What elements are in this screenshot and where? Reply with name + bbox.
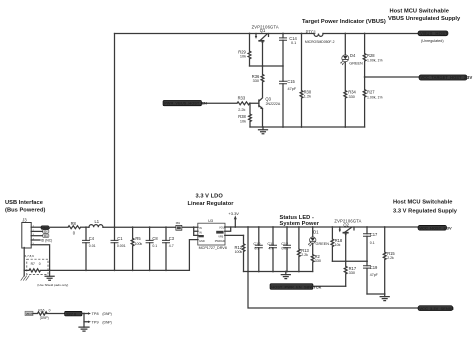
transistor Q1 ZVP2106GTA <box>252 24 279 44</box>
ground (status block) <box>281 271 290 279</box>
svg-text:0.01: 0.01 <box>89 244 96 248</box>
svg-text:R34: R34 <box>348 90 356 95</box>
svg-text:VCC_TARGET_HOST_3.3V: VCC_TARGET_HOST_3.3V <box>420 75 472 80</box>
resistor R7 0 (shield, DNP dashed box) <box>27 259 48 274</box>
svg-text:(DNP): (DNP) <box>102 320 111 324</box>
svg-text:100k: 100k <box>235 250 243 254</box>
svg-text:10k: 10k <box>335 243 341 247</box>
connector J3 USB <box>22 218 35 249</box>
svg-text:0.1: 0.1 <box>152 244 157 248</box>
svg-text:+3.3V: +3.3V <box>228 211 239 216</box>
svg-text:ID (NC): ID (NC) <box>41 239 53 243</box>
svg-text:2.2k: 2.2k <box>301 253 308 257</box>
svg-text:2N2222A: 2N2222A <box>266 102 281 106</box>
svg-text:VBUS_HOST: VBUS_HOST <box>420 31 448 36</box>
svg-text:VFB: VFB <box>218 234 223 238</box>
resistor R33 2.2k <box>237 95 250 112</box>
svg-text:0.1: 0.1 <box>370 241 375 245</box>
net label: D+ (gray) <box>43 234 49 238</box>
resistor R13 2.2k <box>298 227 310 272</box>
wire: U3 input pin ties <box>193 226 198 235</box>
title: Target Power Indicator (VBUS) <box>302 19 386 25</box>
svg-text:R33: R33 <box>238 95 246 100</box>
capacitor C8 0.1 <box>146 227 158 270</box>
capacitor C17 0.1 <box>364 226 379 261</box>
resistor R27 1.00k 1% <box>363 77 382 127</box>
svg-text:D1: D1 <box>313 230 319 235</box>
wire: R8 to L1 <box>81 226 89 228</box>
wire: VBUS top rail <box>115 33 420 35</box>
LED D4 GREEN <box>340 34 363 91</box>
capacitor C12 0.01 <box>281 227 290 272</box>
net label: VBUS (inverse) <box>41 226 50 230</box>
svg-text:R28: R28 <box>367 53 375 58</box>
svg-text:2.2k: 2.2k <box>238 108 245 112</box>
svg-text:(Use Shield pads only): (Use Shield pads only) <box>37 283 68 287</box>
svg-text:2.2k: 2.2k <box>387 256 394 260</box>
svg-text:0.1: 0.1 <box>254 246 259 250</box>
ground (test point row) <box>79 322 89 331</box>
resistor R28 1.00k 1% <box>363 34 382 78</box>
wire: gate node horizontal <box>250 65 284 67</box>
wire: R16 to TP7 <box>47 313 65 315</box>
wire: Q1 gate stem <box>262 41 264 66</box>
svg-text:3.3 V Regulated Supply: 3.3 V Regulated Supply <box>393 209 458 215</box>
svg-text:Linear Regulator: Linear Regulator <box>188 201 235 207</box>
svg-text:GND: GND <box>199 239 205 243</box>
wire: U3 GND pin to ground rail <box>189 240 198 271</box>
svg-text:C19: C19 <box>370 265 378 270</box>
title: USB Interface (Bus Powered) <box>5 200 46 214</box>
port: VCC_HOST_3V3 <box>418 225 452 230</box>
svg-text:HOST_PWR_EN_SBWTCK: HOST_PWR_EN_SBWTCK <box>271 284 321 289</box>
svg-text:VCC_HOST_3.3V: VCC_HOST_3.3V <box>419 225 452 230</box>
power symbol +3.3V <box>228 211 239 227</box>
title: Status LED - System Power <box>280 215 320 227</box>
svg-text:C4: C4 <box>89 236 95 241</box>
port: VCC_TARGET_HOST sense <box>419 75 472 80</box>
ground (J3 GND pin) <box>45 270 54 280</box>
svg-text:Q3: Q3 <box>265 96 271 101</box>
note: use shield pads only <box>37 283 68 287</box>
capacitor C14 0.1 <box>280 34 298 67</box>
PTC fuse PTC1 MICROSMD050F-2 <box>305 29 335 44</box>
wire: 3.3V sense long vertical and bottom run <box>247 226 418 308</box>
svg-text:R16: R16 <box>38 309 44 313</box>
port: VBUS_HOST (unregulated) <box>418 31 448 43</box>
net label: VBUS test point row (gray) <box>25 311 33 316</box>
svg-text:VBUS: VBUS <box>26 312 33 316</box>
wire: Q2 gate node <box>332 260 368 262</box>
svg-text:6,7,8,9: 6,7,8,9 <box>25 254 35 258</box>
wire: divider tap to sense label <box>364 76 421 78</box>
svg-text:VBUS Unregulated Supply: VBUS Unregulated Supply <box>388 16 461 22</box>
test point TP9 (DNP) <box>88 320 112 324</box>
port: VCC_3V3_SENSE <box>418 306 454 311</box>
svg-text:MICROSMD050F-2: MICROSMD050F-2 <box>305 40 335 44</box>
svg-text:USB Interface: USB Interface <box>5 200 43 206</box>
resistor R16 0 (DNP) <box>38 309 51 321</box>
svg-text:Target Power Indicator (VBUS): Target Power Indicator (VBUS) <box>302 19 386 25</box>
svg-text:C8: C8 <box>152 236 158 241</box>
svg-text:1.00k, 1%: 1.00k, 1% <box>367 59 383 63</box>
resistor R15 2.2k <box>383 226 395 294</box>
capacitor C1 0.001 <box>111 227 126 270</box>
transistor Q3 <box>259 96 281 109</box>
wire: USB VBUS rail to U3 <box>103 226 198 228</box>
wire: J3 pin1 VBUS stub <box>31 226 41 228</box>
svg-text:PWR_VBUS_HOST_EN: PWR_VBUS_HOST_EN <box>164 101 207 106</box>
svg-text:IN: IN <box>199 230 202 234</box>
svg-text:C15: C15 <box>287 79 295 84</box>
capacitor C3 4.7 <box>163 227 175 270</box>
svg-text:FB1: FB1 <box>176 222 181 225</box>
wire: R12 bottom to ground rail <box>244 271 249 273</box>
svg-text:System Power: System Power <box>280 221 320 227</box>
svg-text:10k: 10k <box>240 55 246 59</box>
ground (host 3.3V block) <box>380 293 389 301</box>
resistor R12 100k <box>234 235 244 271</box>
capacitor C10 0.1 <box>253 227 262 272</box>
resistor R17 330 <box>344 261 357 286</box>
wire: USB ground rail <box>24 269 189 271</box>
svg-text:0.001: 0.001 <box>117 244 126 248</box>
svg-text:R8: R8 <box>71 221 77 226</box>
svg-text:47pF: 47pF <box>370 273 378 277</box>
svg-text:(DNP): (DNP) <box>102 312 111 316</box>
svg-text:4.7: 4.7 <box>268 246 273 250</box>
svg-text:(Unregulated): (Unregulated) <box>421 39 444 43</box>
wire: J3 pin5 GND stub down <box>31 245 50 271</box>
LED D1 GREEN <box>308 227 329 255</box>
svg-text:330: 330 <box>315 259 321 263</box>
ground (top block) <box>259 127 268 134</box>
wire: top block ground rail <box>250 126 365 128</box>
wire: Q2 gate stem <box>345 233 347 262</box>
capacitor C15 47pF <box>280 66 297 127</box>
svg-text:PTC1: PTC1 <box>306 29 317 34</box>
resistor R29 10k <box>238 34 251 67</box>
wire: VBUS to R8 <box>49 226 68 228</box>
wire: J3 pin3 D+ stub <box>31 235 42 237</box>
wire: Q3 emitter to ground rail <box>262 109 264 127</box>
svg-text:Q2: Q2 <box>343 223 349 228</box>
svg-text:330: 330 <box>349 95 355 99</box>
test point TP7 (inverse box) <box>65 311 82 316</box>
svg-text:330: 330 <box>349 271 355 275</box>
svg-text:TP8: TP8 <box>92 312 99 316</box>
svg-text:1.00k, 1%: 1.00k, 1% <box>367 95 383 99</box>
net label: D- (gray) <box>43 230 49 234</box>
svg-text:C1: C1 <box>117 236 123 241</box>
svg-text:47pF: 47pF <box>288 87 297 91</box>
svg-text:1.2k: 1.2k <box>304 95 311 99</box>
svg-text:C11: C11 <box>267 242 274 246</box>
svg-text:(DNP): (DNP) <box>40 316 49 320</box>
title: 3.3 V LDO Linear Regulator <box>188 194 235 208</box>
wire: Q3 base wire <box>202 102 259 104</box>
chassis ground (shield) <box>21 270 29 280</box>
inductor L1 <box>89 219 103 227</box>
svg-text:VCC_3.3V_SENSE: VCC_3.3V_SENSE <box>419 306 454 311</box>
svg-text:3.3 V LDO: 3.3 V LDO <box>196 194 224 200</box>
svg-text:U3: U3 <box>208 219 213 223</box>
svg-text:PWRGD: PWRGD <box>215 239 225 243</box>
wire: VBUS rail left vertical drop to USB rail <box>114 34 116 228</box>
svg-text:C12: C12 <box>281 242 288 246</box>
svg-text:Host MCU Switchable: Host MCU Switchable <box>393 200 452 206</box>
resistor R30 1.2k <box>300 34 312 128</box>
svg-text:L1: L1 <box>95 219 100 224</box>
svg-text:(Bus Powered): (Bus Powered) <box>5 208 46 214</box>
wire: label to R16 <box>33 313 38 315</box>
svg-text:C10: C10 <box>253 242 260 246</box>
wire: status block ground rail <box>248 271 313 273</box>
svg-text:0: 0 <box>49 309 51 313</box>
svg-text:TP7 0: TP7 0 <box>66 312 76 316</box>
node dots: 3.3V rail <box>234 226 313 272</box>
svg-text:D4: D4 <box>350 53 356 58</box>
svg-text:GREEN: GREEN <box>349 61 363 65</box>
svg-text:TP9: TP9 <box>92 320 99 324</box>
node dots: USB rails <box>85 226 167 271</box>
svg-text:0.1: 0.1 <box>291 41 296 45</box>
svg-text:Host MCU Switchable: Host MCU Switchable <box>390 9 449 15</box>
svg-text:4.7: 4.7 <box>169 244 174 248</box>
svg-text:Q1: Q1 <box>260 28 266 33</box>
capacitor C19 47pF <box>364 261 379 294</box>
svg-text:C3: C3 <box>169 236 175 241</box>
wire: C19 bottom to ground corner <box>367 293 385 295</box>
net label: PWR_VBUS_HOST_EN (gray) <box>163 100 207 105</box>
svg-text:R7: R7 <box>31 262 35 266</box>
resistor R2 330 <box>311 254 321 272</box>
op-amp U3 LDO regulator <box>198 219 227 250</box>
svg-text:R27: R27 <box>367 90 375 95</box>
wire: U3 FB pin stub <box>225 234 244 236</box>
svg-text:J3: J3 <box>22 218 27 223</box>
svg-text:C17: C17 <box>370 232 378 237</box>
svg-text:IN: IN <box>199 226 202 230</box>
svg-text:0.01: 0.01 <box>281 246 288 250</box>
svg-text:MCP1727_DRV8: MCP1727_DRV8 <box>199 246 227 250</box>
title: Host MCU Switchable 3.3 V Regulated Supply <box>393 200 458 215</box>
wire: J3 shield drop <box>24 248 34 271</box>
capacitor C11 4.7 <box>267 227 276 272</box>
transistor Q2 ZVP2106GTA <box>334 218 361 236</box>
svg-text:330: 330 <box>253 79 259 83</box>
wire: U3 PG pin stub <box>225 227 231 231</box>
test point TP8 (DNP) <box>88 312 112 316</box>
wire: J3 pin2 D- stub <box>31 230 42 232</box>
wire: J3 pin4 ID stub (NC) <box>31 239 52 243</box>
resistor R8 0 <box>68 221 81 236</box>
ferrite bead FB1 (boxed) <box>176 222 182 230</box>
svg-text:GREEN: GREEN <box>316 242 330 246</box>
svg-text:D+: D+ <box>44 234 48 238</box>
resistor R5 100k <box>131 227 142 270</box>
wire: TP7 to junction <box>82 313 88 315</box>
resistor R34 330 <box>344 90 357 127</box>
wire: junction down to TP9 <box>84 314 88 322</box>
svg-text:R5: R5 <box>135 236 141 241</box>
resistor R38 10k <box>238 102 251 127</box>
capacitor C4 0.01 <box>83 227 96 270</box>
resistor R36 330 <box>252 66 264 97</box>
svg-text:100k: 100k <box>135 242 143 246</box>
wire: enable wire from net label to R17 <box>313 285 346 287</box>
svg-text:10k: 10k <box>240 119 246 123</box>
wire: 3.3V rail <box>225 226 418 228</box>
node dots: top block junctions <box>249 33 366 128</box>
title: Host MCU Switchable VBUS Unregulated Supply <box>388 9 461 22</box>
net label: HOST power enable (inverse) <box>270 284 322 290</box>
svg-text:0: 0 <box>39 262 41 266</box>
resistor R18 10k <box>331 226 343 261</box>
